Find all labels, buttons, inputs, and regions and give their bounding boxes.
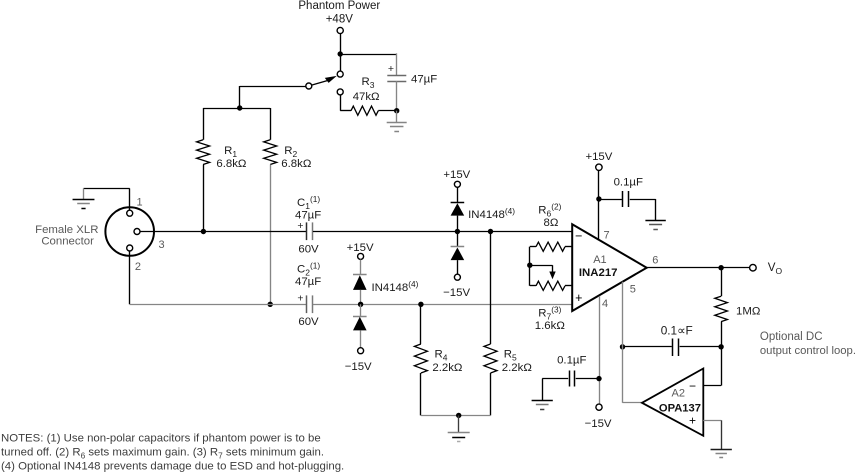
ground pin7 cap [645,220,665,222]
svg-text:+15V: +15V [443,169,470,181]
svg-text:(4) Optional IN4148 prevents d: (4) Optional IN4148 prevents damage due … [1,461,344,472]
ground XLR [129,188,131,210]
junction R5 top [488,229,493,234]
svg-text:60V: 60V [298,243,319,255]
resistor R2 [270,108,272,140]
junction diode pair2 [358,302,363,307]
svg-text:6.8kΩ: 6.8kΩ [281,158,312,170]
wire pot left [529,247,531,286]
svg-text:turned off. (2) R6 sets maximu: turned off. (2) R6 sets maximum gain. (3… [1,446,324,460]
svg-text:output control loop.: output control loop. [760,345,856,357]
junction phantom top [338,51,343,56]
capacitor 0.1F servo [623,346,672,348]
wire C2 to INA plus [313,304,572,306]
resistor 1M [721,268,723,297]
terminal -15V pin4 [596,404,602,410]
wire C1 to INA minus [313,231,572,233]
svg-text:−: − [689,379,696,393]
wire A2 plus input [703,420,721,422]
svg-text:Female XLR: Female XLR [35,224,98,236]
svg-text:INA217: INA217 [579,267,618,279]
svg-text:0.1µF: 0.1µF [614,177,643,189]
svg-text:R5: R5 [504,348,517,362]
svg-text:IN4148(4): IN4148(4) [372,279,419,294]
switch wiper arrow [312,80,329,85]
svg-text:Optional DC: Optional DC [760,331,823,343]
svg-text:A2: A2 [672,387,685,399]
terminal -15V diode1 [454,274,460,280]
resistor R1 [203,108,205,140]
svg-text:7: 7 [604,229,610,241]
wire R4-R5 bottom [421,415,491,417]
wire +48V terminal to junction [340,34,342,54]
switch pole [306,83,312,89]
svg-text:0.1∝F: 0.1∝F [661,323,693,337]
svg-text:1.6kΩ: 1.6kΩ [535,320,566,332]
diode D1 lower [457,232,459,247]
svg-text:47µF: 47µF [411,73,437,85]
resistor R7 [530,285,536,287]
wire switch pole to R1R2 rail [240,86,306,88]
wire pin4 [599,296,601,404]
wire pin5 to A2 [622,282,624,403]
wire junction to switch throw [340,54,342,71]
ground R4R5 [458,415,460,432]
svg-text:60V: 60V [298,316,319,328]
junction pin5 cap [620,344,625,349]
svg-text:1MΩ: 1MΩ [736,305,761,317]
svg-text:IN4148(4): IN4148(4) [468,206,515,221]
junction pin7 cap [596,196,601,201]
op-amp U1 INA217 [572,224,647,311]
pin 1 XLR [127,210,133,216]
svg-text:C2(1): C2(1) [297,260,320,277]
junction output [718,265,723,270]
svg-text:47µF: 47µF [295,276,321,288]
terminal Vo [750,264,757,271]
junction pot wiper [527,263,532,268]
pot wiper arrow [530,265,553,267]
svg-text:VO: VO [768,261,783,276]
terminal +15V diode2 [358,253,364,259]
svg-text:R7(3): R7(3) [538,304,561,321]
junction R4R5 gnd [456,413,461,418]
svg-text:R1: R1 [224,145,237,159]
svg-text:+15V: +15V [585,151,612,163]
ground phantom [396,111,398,123]
wire R1-R2 top rail [203,108,270,110]
svg-text:R3: R3 [362,76,375,90]
terminal +15V diode1 [454,181,460,187]
svg-text:2.2kΩ: 2.2kΩ [432,362,463,374]
svg-text:A1: A1 [593,254,606,266]
junction R2 bottom [268,302,273,307]
svg-text:3: 3 [159,239,165,251]
svg-text:4: 4 [602,298,608,310]
op-amp U2 OPA137 [642,369,703,436]
svg-text:5: 5 [630,283,636,295]
junction R1R2 rail [237,105,242,110]
svg-text:−: − [575,229,582,243]
terminal -15V diode2 [358,348,364,354]
svg-text:+: + [297,220,303,232]
svg-text:8Ω: 8Ω [544,217,559,229]
ground pin4 cap [532,400,553,402]
svg-text:47kΩ: 47kΩ [353,91,380,103]
diode D2 upper [360,260,362,275]
wire pin3 to C1 [140,231,306,233]
capacitor 47uF phantom plates [387,75,406,77]
svg-text:Phantom Power: Phantom Power [298,0,380,12]
junction pin4 cap [596,376,601,381]
svg-text:2: 2 [135,261,141,273]
svg-text:−15V: −15V [443,287,470,299]
diode D1 upper [457,187,459,202]
svg-text:6: 6 [652,254,658,266]
junction R4 top [418,302,423,307]
wire junction to cap top [340,54,397,56]
svg-text:R2: R2 [284,145,297,159]
switch throw upper [337,71,343,77]
wire pin2 to C2 [130,304,307,306]
svg-text:C1(1): C1(1) [297,194,320,211]
svg-text:OPA137: OPA137 [659,402,701,414]
pin 2 XLR [127,245,133,251]
svg-text:+48V: +48V [326,13,354,25]
resistor R5 [490,232,492,345]
resistor R6 [530,246,536,248]
terminal +48V [337,27,343,33]
resistor R3 [340,110,351,112]
svg-text:R4: R4 [435,348,448,362]
wire throw to R3 [340,95,342,111]
svg-text:0.1µF: 0.1µF [557,354,586,366]
svg-text:2.2kΩ: 2.2kΩ [502,362,533,374]
resistor R4 [420,304,422,344]
switch throw lower [337,89,343,95]
terminal +15V pin7 [596,164,602,170]
connector XLR shell [105,207,154,256]
junction phantom bottom [394,108,399,113]
capacitor 0.1uF pin7 [599,199,622,201]
wire A2 minus input [703,385,721,387]
svg-text:+: + [689,413,696,427]
svg-text:+: + [575,291,582,305]
wire pin2 down [129,251,131,304]
svg-text:R6(2): R6(2) [538,201,561,218]
junction 1M bottom [718,344,723,349]
svg-text:1: 1 [137,197,143,209]
capacitor C2 [306,295,308,313]
capacitor C1 [306,222,308,240]
wire pin7 [598,171,600,241]
capacitor 0.1uF pin4 [576,378,599,380]
svg-text:NOTES: (1) Use non-polar capac: NOTES: (1) Use non-polar capacitors if p… [1,432,321,444]
junction R1 bottom [201,229,206,234]
svg-text:+: + [388,63,394,75]
junction diode pair1 [455,229,460,234]
svg-text:Connector: Connector [41,235,94,247]
svg-text:−15V: −15V [345,361,372,373]
svg-text:+: + [297,293,303,305]
pin 3 XLR [134,229,140,235]
wire output [647,267,750,269]
svg-text:−15V: −15V [585,418,612,430]
svg-text:+15V: +15V [347,242,374,254]
ground A2 [711,449,732,451]
diode D2 lower [360,304,362,316]
svg-text:6.8kΩ: 6.8kΩ [216,158,247,170]
